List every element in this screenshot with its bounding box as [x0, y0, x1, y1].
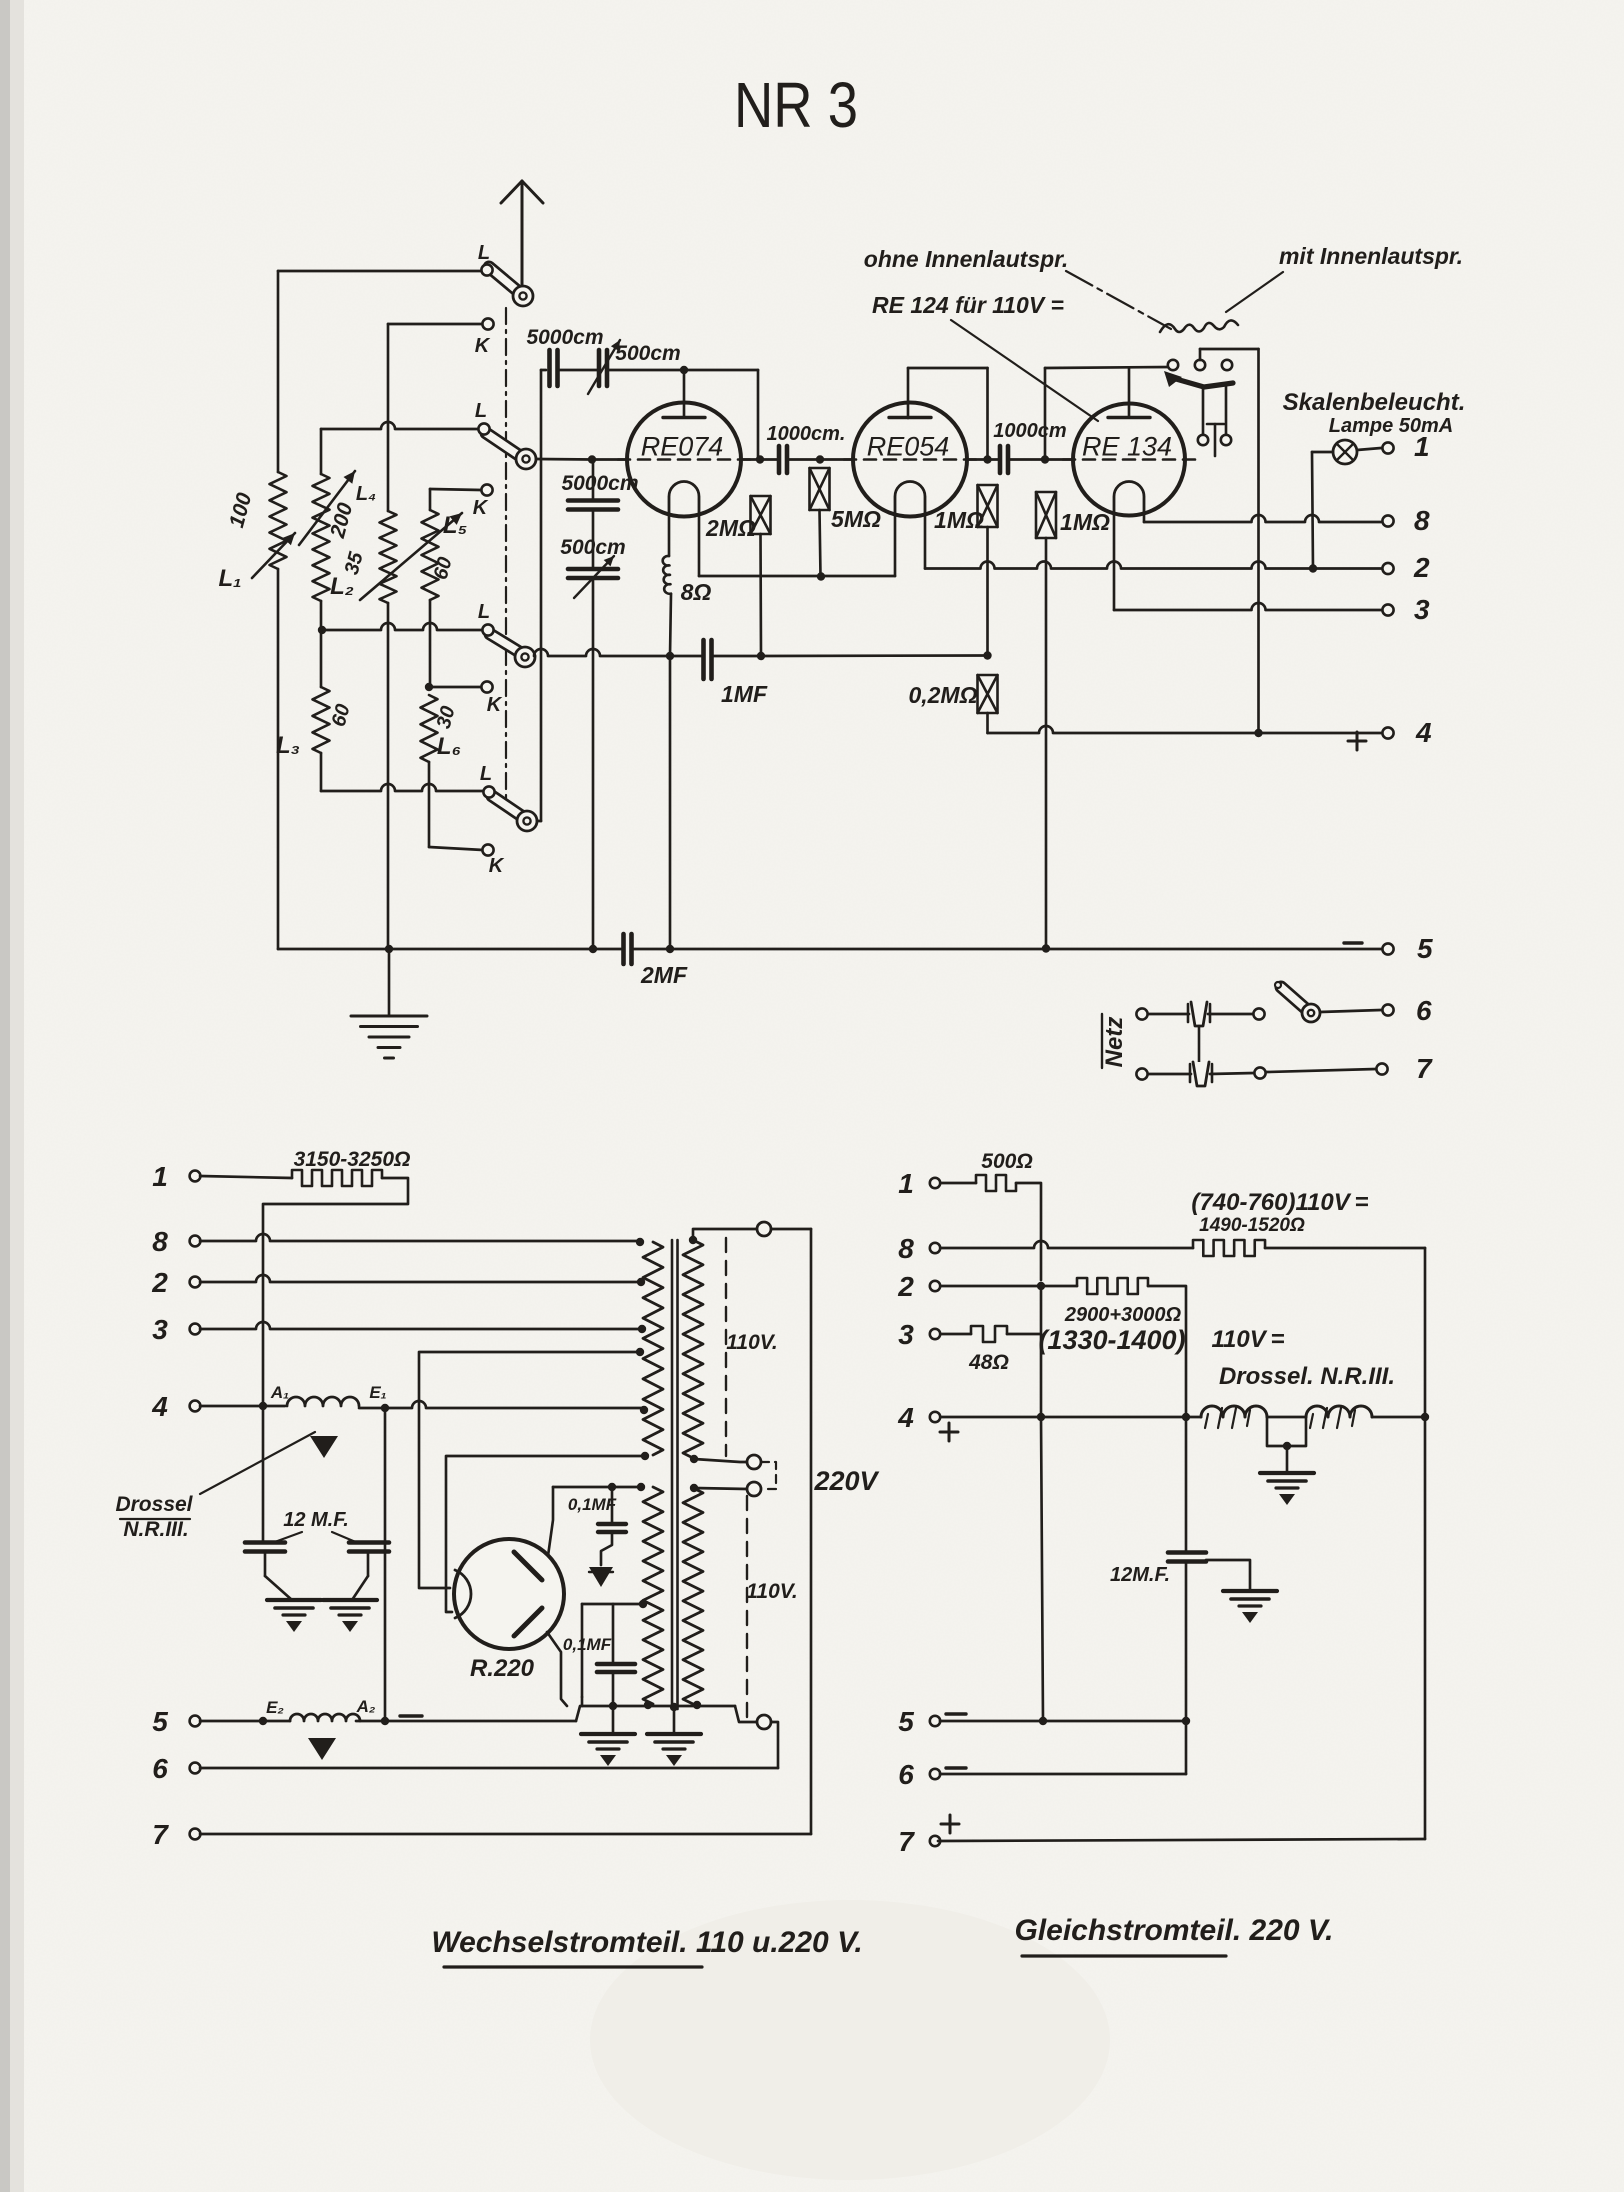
tube RE074: [618, 403, 750, 517]
label L5: [443, 512, 467, 539]
wire plug top to bus: [771, 1229, 811, 1834]
netz fuse 1: [1188, 1002, 1210, 1026]
junction dot 1M2/ground bus: [1042, 944, 1050, 952]
capacitor 1MF: [704, 640, 712, 679]
label 2900+3000Ω: [1064, 1304, 1182, 1326]
label 1490-1520Ω: [1199, 1215, 1305, 1236]
wire RE054 left leg: [894, 514, 897, 576]
junction dot sec mid a: [690, 1455, 698, 1463]
coil L2 (200): [313, 474, 330, 601]
terminal 3: [1382, 604, 1393, 615]
label Netz: [1101, 1014, 1128, 1068]
plus sign terminal 4: [1348, 732, 1366, 750]
wire RE134 right leg: [1143, 512, 1146, 522]
wire 01MF2 bottom: [612, 1673, 615, 1706]
svg-text:RE054: RE054: [867, 432, 950, 462]
label K (S2): [473, 497, 489, 519]
minus sign row5: [400, 1714, 422, 1717]
ground (12MF DC): [1223, 1591, 1277, 1623]
pointer lines 12MF: [272, 1532, 358, 1543]
label 110V upper: [726, 1331, 777, 1354]
label terminal 2 (AC unit): [151, 1267, 168, 1298]
wire ground stem (01MF2): [612, 1706, 615, 1732]
svg-text:1000cm.: 1000cm.: [767, 423, 846, 445]
svg-text:NR 3: NR 3: [734, 69, 858, 141]
svg-text:2: 2: [1413, 552, 1430, 583]
svg-text:(1330-1400): (1330-1400): [1038, 1325, 1185, 1355]
wire L6 bottom: [428, 762, 431, 847]
svg-text:5000cm: 5000cm: [526, 326, 603, 349]
speaker jack T: [1207, 424, 1224, 456]
svg-text:(740-760)110V =: (740-760)110V =: [1191, 1189, 1368, 1216]
junction dot tap3: [638, 1325, 646, 1333]
svg-text:1: 1: [1414, 431, 1430, 462]
svg-text:110V.: 110V.: [746, 1580, 797, 1603]
terminal 7: [1376, 1063, 1387, 1074]
ground (12MF left): [267, 1600, 321, 1632]
switch gang dash-dot line: [505, 308, 507, 800]
junction dot sec bottom: [693, 1701, 701, 1709]
transformer primary lower: [643, 1487, 663, 1704]
svg-text:8Ω: 8Ω: [681, 579, 712, 605]
label K (S4): [489, 855, 505, 877]
svg-text:8: 8: [898, 1233, 914, 1264]
junction dot row5 left: [259, 1717, 267, 1725]
plug circle mid b: [747, 1482, 761, 1496]
label terminal 6 (AC unit): [152, 1753, 168, 1784]
wire row3 DC: [941, 1333, 971, 1336]
junction dot row5 a: [1039, 1717, 1047, 1725]
leader RE124: [951, 320, 1098, 421]
minus sign terminal 5: [1344, 941, 1362, 944]
choke core arrow 1: [310, 1436, 338, 1458]
svg-text:1000cm: 1000cm: [993, 420, 1066, 442]
dashed 110V upper: [725, 1238, 727, 1456]
label 500cm (shunt): [560, 536, 625, 559]
label 60 (L3): [328, 702, 355, 729]
label 48Ω: [968, 1351, 1009, 1374]
svg-text:K: K: [487, 694, 503, 716]
netz lever tip: [1275, 982, 1281, 988]
resistor 2MΩ: [751, 496, 771, 534]
wire bias bus right: [761, 654, 988, 657]
wire S1-K to L4 column: [388, 323, 482, 326]
wire ground bus right: [634, 948, 1381, 951]
label Drossel: [115, 1493, 193, 1519]
svg-text:L₁: L₁: [218, 565, 241, 592]
junction dot E1 bottom: [381, 1717, 389, 1725]
wire anode1 row: [553, 1486, 640, 1489]
svg-text:5: 5: [1417, 933, 1433, 964]
leader mit Innenlautspr: [1226, 272, 1283, 312]
switch S3 L contact: [482, 624, 493, 635]
label 8Ω: [681, 579, 712, 605]
terminal 2 (DC unit): [930, 1281, 940, 1291]
label ohne Innenlautspr.: [864, 246, 1068, 272]
junction dot 5M node: [816, 455, 824, 463]
antenna symbol: [501, 181, 543, 287]
wire L1 top: [277, 271, 280, 472]
wire 01MF column: [581, 1604, 584, 1706]
label 1MΩ (2): [1060, 509, 1110, 535]
wire between shunt caps: [592, 510, 595, 568]
terminal 8: [1382, 515, 1393, 526]
svg-text:3: 3: [898, 1319, 914, 1350]
caption Gleichstromteil: [1014, 1914, 1333, 1956]
wire lamp left: [1312, 452, 1333, 569]
svg-text:7: 7: [1416, 1053, 1433, 1084]
ground (choke): [1260, 1473, 1314, 1505]
wire 01MF2 top: [612, 1604, 615, 1662]
wire row8 DC: [941, 1241, 1193, 1248]
wire contact b up to bus: [1200, 349, 1259, 733]
junction dot sec mid b: [690, 1484, 698, 1492]
wire terminal4 to drossel: [200, 1405, 285, 1408]
terminal 3 (DC unit): [930, 1329, 940, 1339]
wire 12MF hook: [1206, 1560, 1250, 1590]
wire row5 to step: [356, 1720, 576, 1723]
label 30: [433, 704, 460, 731]
wire cap to 5M node: [787, 458, 820, 461]
label terminal 6 (DC unit): [898, 1759, 914, 1790]
wire 2M to bias bus: [759, 534, 762, 656]
label RE124 fuer 110V: [872, 292, 1064, 318]
label 5MΩ: [831, 506, 881, 532]
choke DC 2 curls: [1310, 1408, 1355, 1428]
label 12 M.F.: [283, 1509, 349, 1531]
terminal 1 (DC unit): [930, 1178, 940, 1188]
label Lampe 50mA: [1329, 415, 1454, 437]
svg-text:1MF: 1MF: [721, 681, 768, 707]
svg-text:ohne Innenlautspr.: ohne Innenlautspr.: [864, 246, 1068, 272]
switch S4 L contact: [483, 786, 494, 797]
wire resistor elbow: [263, 1178, 408, 1402]
label 0,1MF (2): [563, 1635, 612, 1654]
label terminal 5 (AC unit): [152, 1706, 168, 1737]
netz link: [1198, 1026, 1201, 1062]
wire row2 DC: [941, 1285, 1077, 1288]
junction dot tuning column: [588, 455, 596, 463]
wire mid column lower: [1041, 1417, 1043, 1721]
terminal 6 (AC unit): [190, 1763, 201, 1774]
wire winding bottom left: [647, 1705, 650, 1706]
speaker switch contact b: [1195, 360, 1205, 370]
junction dot right bus row4: [1421, 1413, 1429, 1421]
label L1: [218, 565, 241, 592]
capacitor 1000cm (1): [779, 446, 787, 473]
minus sign row6 DC: [946, 1766, 966, 1769]
junction dot sec top: [689, 1236, 697, 1244]
ground (main): [351, 1016, 427, 1058]
choke winding 2 (E2): [290, 1714, 360, 1721]
svg-text:1: 1: [152, 1161, 168, 1192]
label Drossel NR III (DC): [1219, 1363, 1395, 1390]
label Skalenbeleucht.: [1283, 389, 1466, 416]
wire terminal1 to resistor: [200, 1176, 292, 1178]
resistor 0,2MΩ: [978, 675, 998, 713]
junction dot coil/bus: [666, 652, 674, 660]
junction dot winding2 mid tap: [639, 1600, 647, 1608]
switch S3 lever: [490, 634, 521, 653]
label terminal 3: [1414, 594, 1430, 625]
svg-text:K: K: [475, 335, 491, 357]
wire terminal1 DC: [941, 1182, 976, 1185]
wire coil column to ground bus: [669, 656, 672, 949]
label terminal 5 (DC unit): [898, 1706, 914, 1737]
wire S4-K: [429, 847, 483, 850]
wire row5 to row6: [1185, 1721, 1188, 1774]
dashed 110V lower: [746, 1496, 748, 1722]
wire cap row to RE074 top: [607, 369, 684, 372]
label 5000cm (shunt): [561, 472, 638, 495]
plug circle mid a: [747, 1455, 761, 1469]
capacitor 0,1MF (2): [597, 1664, 635, 1672]
wire netz c: [1148, 1073, 1191, 1076]
wire netz a: [1148, 1013, 1189, 1016]
svg-text:220V: 220V: [813, 1466, 879, 1496]
svg-text:1: 1: [898, 1168, 914, 1199]
terminal 1: [1382, 442, 1393, 453]
coil L5 (60): [422, 510, 439, 600]
wire 12MF right to ground: [352, 1552, 368, 1600]
tube RE054: [844, 403, 976, 517]
svg-text:Wechselstromteil. 110 u.220 V: Wechselstromteil. 110 u.220 V.: [431, 1926, 862, 1959]
label (740-760)110V=: [1191, 1189, 1368, 1216]
svg-text:E₂: E₂: [266, 1698, 284, 1717]
label K (S1): [475, 335, 491, 357]
wire L5 bottom: [429, 600, 432, 687]
wire 12MF to row5: [1185, 1562, 1188, 1721]
wire 5M to filament wire: [820, 510, 821, 576]
wire 12MF left top: [262, 1541, 265, 1544]
label A2: [356, 1697, 376, 1716]
label 2MΩ: [705, 515, 756, 541]
svg-text:RE074: RE074: [641, 432, 724, 462]
label terminal 8 (AC unit): [152, 1226, 168, 1257]
label 500cm (top row): [615, 342, 680, 365]
svg-text:1MΩ: 1MΩ: [934, 507, 984, 533]
wire row to S4: [321, 784, 484, 791]
wire row7 (AC): [200, 1833, 811, 1836]
wire L4 column: [387, 324, 390, 511]
leader ohne Innenlautspr: [1066, 271, 1171, 329]
svg-text:Drossel: Drossel: [115, 1493, 193, 1516]
wire netz d: [1210, 1073, 1254, 1074]
wire row8 to right bus: [1265, 1248, 1425, 1839]
label 100: [225, 490, 256, 530]
coil 8Ω: [663, 556, 671, 594]
arrow L1: [252, 533, 295, 578]
switch S1 antenna lever: [489, 267, 520, 293]
label 110V=: [1211, 1326, 1284, 1353]
netz row7 contact b: [1254, 1067, 1265, 1078]
switch S4 lever: [492, 796, 523, 817]
label terminal 4: [1415, 717, 1432, 748]
label (1330-1400): [1038, 1325, 1185, 1355]
junction dot switch bus/terminal4: [1254, 729, 1262, 737]
resistor 500Ω: [976, 1175, 1016, 1191]
wire lamp to terminal 1: [1357, 448, 1381, 450]
junction dot tap mid: [636, 1348, 644, 1356]
svg-text:L₅: L₅: [443, 512, 467, 539]
wire L2 bottom: [320, 601, 323, 630]
svg-text:1490-1520Ω: 1490-1520Ω: [1199, 1215, 1305, 1236]
svg-text:7: 7: [898, 1826, 915, 1857]
wire netz pivot to terminal 6: [1320, 1010, 1381, 1012]
junction dot bias end: [983, 651, 991, 659]
terminal 4 (DC unit): [930, 1412, 940, 1422]
wire node to RE134: [1044, 458, 1074, 461]
svg-text:5: 5: [898, 1706, 914, 1737]
wire L3 top: [320, 630, 323, 687]
svg-text:A₂: A₂: [356, 1697, 376, 1716]
title NR 3: [734, 69, 858, 141]
ground (01MF2): [581, 1734, 635, 1766]
svg-text:L: L: [475, 400, 487, 422]
capacitor 0,1MF (1): [598, 1524, 626, 1532]
svg-text:Skalenbeleucht.: Skalenbeleucht.: [1283, 389, 1466, 416]
label 1MΩ (1): [934, 507, 984, 533]
wire anode2 down: [547, 1632, 567, 1706]
speaker jack circle a: [1198, 435, 1208, 445]
speaker switch contact c: [1222, 360, 1232, 370]
wire secondary top to plug: [693, 1229, 757, 1240]
wire L1 bottom: [277, 569, 280, 949]
wire row6 DC: [940, 1773, 1186, 1776]
label 0,2MΩ: [908, 682, 977, 708]
wire row4 DC: [941, 1416, 1201, 1419]
transformer primary upper: [643, 1242, 663, 1455]
wire ground bus left: [278, 948, 621, 951]
terminal 6 (DC unit): [930, 1769, 940, 1779]
wire transformer bottom to plug: [735, 1706, 757, 1722]
wire 500 elbow: [1016, 1183, 1041, 1280]
wire tap mid to rectifier filament a: [419, 1352, 640, 1588]
junction dot row4 b: [1182, 1413, 1190, 1421]
switch S4 K contact: [482, 844, 493, 855]
label 35: [341, 549, 368, 577]
label terminal 7 (AC unit): [152, 1819, 169, 1850]
wire L2 top: [320, 429, 323, 474]
wire node to RE054: [820, 458, 853, 461]
wire coil to bias bus: [670, 594, 671, 656]
wire 12MF left to ground: [265, 1552, 292, 1600]
speaker switch bar: [1164, 371, 1233, 387]
speaker jack right leg: [1225, 385, 1228, 435]
svg-text:RE 124 für 110V =: RE 124 für 110V =: [872, 292, 1064, 318]
resistor 3150-3250Ω: [292, 1170, 382, 1186]
choke DC 1 curls: [1205, 1408, 1250, 1428]
coil L1 (100): [270, 472, 287, 569]
tube RE134: [1063, 404, 1195, 516]
netz pivot: [1302, 1004, 1320, 1022]
switch S2 lever: [486, 433, 520, 456]
junction dot coil/ground bus: [666, 945, 674, 953]
wire between chokes: [1267, 1416, 1306, 1419]
junction dot core ground: [670, 1703, 678, 1711]
rectifier R.220: [454, 1539, 564, 1649]
label L (S3): [478, 601, 490, 623]
wire RE074 left leg: [668, 514, 671, 556]
wire heater column lower: [262, 1410, 265, 1542]
capacitor 5000cm (shunt): [568, 501, 618, 510]
label terminal 3 (DC unit): [898, 1319, 914, 1350]
svg-text:3150-3250Ω: 3150-3250Ω: [294, 1148, 411, 1171]
wire cap row left: [541, 369, 546, 372]
wire RE074 top cap: [683, 372, 686, 416]
junction dot ground tap: [385, 945, 393, 953]
minus sign row5 DC: [946, 1712, 966, 1715]
label R.220: [470, 1655, 535, 1682]
svg-text:A₁: A₁: [270, 1383, 289, 1402]
label L (S2): [475, 400, 487, 422]
junction dot grid node 1: [756, 455, 764, 463]
label L3: [276, 732, 300, 759]
wire RE054 top loop: [908, 368, 988, 460]
junction dot RE074 top: [680, 366, 688, 374]
wire RE054 filament to terminal 2: [925, 562, 1381, 569]
svg-text:N.R.III.: N.R.III.: [123, 1518, 188, 1541]
junction dot 500/row2: [1037, 1282, 1045, 1290]
label terminal 8: [1414, 505, 1430, 536]
choke DC 1: [1201, 1406, 1267, 1417]
svg-text:3: 3: [1414, 594, 1430, 625]
wire S2-L: [321, 422, 481, 429]
label terminal 4 (DC unit): [897, 1402, 914, 1433]
terminal 2 (AC unit): [190, 1277, 201, 1288]
netz row6 contact b: [1253, 1008, 1264, 1019]
wire node row to S3: [322, 623, 482, 630]
label 500Ω: [981, 1150, 1032, 1173]
wire sec mid a to plug: [694, 1459, 747, 1462]
label L (S1): [478, 242, 490, 264]
junction dot heater/row4: [259, 1402, 267, 1410]
label L6: [437, 733, 461, 760]
svg-text:2: 2: [151, 1267, 168, 1298]
wire 12MF column: [1185, 1417, 1188, 1551]
svg-text:R.220: R.220: [470, 1655, 535, 1682]
resistor 48Ω: [971, 1326, 1007, 1342]
wire mid column: [1040, 1286, 1043, 1417]
label L (S4): [480, 763, 492, 785]
svg-text:E₁: E₁: [369, 1383, 386, 1402]
label terminal 5: [1417, 933, 1433, 964]
netz row7 contact a: [1136, 1068, 1147, 1079]
netz row6 contact a: [1136, 1008, 1147, 1019]
junction dot tap2: [637, 1278, 645, 1286]
wire drossel to tap4: [359, 1401, 642, 1408]
switch S4 knob: [517, 811, 537, 831]
wire tap low to rectifier filament b: [446, 1456, 645, 1612]
wire top row to grid node: [684, 370, 758, 460]
svg-text:K: K: [473, 497, 489, 519]
svg-text:8: 8: [1414, 505, 1430, 536]
wire column down: [592, 460, 595, 501]
switch S1 L contact: [481, 264, 492, 275]
wire terminal5 row: [200, 1720, 290, 1723]
label 1000cm (1): [767, 423, 846, 445]
svg-text:5: 5: [152, 1706, 168, 1737]
wire node to coupling cap: [740, 458, 779, 461]
wire 01MF1 lead: [611, 1487, 614, 1522]
terminal 5: [1382, 943, 1393, 954]
leader Drossel label: [200, 1432, 315, 1494]
junction dot 01MF2 bottom: [609, 1702, 617, 1710]
label 1MF: [721, 681, 768, 707]
plug circle bottom: [757, 1715, 771, 1729]
label 200: [326, 500, 358, 541]
svg-text:4: 4: [897, 1402, 914, 1433]
